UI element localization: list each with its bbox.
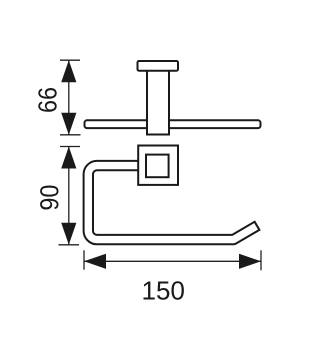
dim 150: dimension line (84, 260, 261, 262)
dim 66: top extension tick (60, 59, 80, 61)
dim 90: top extension tick (60, 146, 80, 148)
top view: wall cap (138, 61, 179, 71)
dim 90: bottom extension tick (59, 244, 80, 246)
front view: tube inner (white) (88, 166, 256, 240)
dim 150: right arrowhead (239, 254, 261, 269)
front view: tube outline (black) (88, 166, 258, 240)
top view: horizontal bar (85, 120, 261, 128)
dim 150: left extension tick (83, 250, 85, 269)
dim 90: up arrowhead (61, 147, 76, 169)
dim 150: left arrowhead (84, 254, 106, 269)
dim 66: label (38, 88, 56, 112)
dim 66: down arrowhead (61, 113, 76, 135)
front view: wall plate outer square (138, 146, 178, 185)
dim 150: label (144, 281, 184, 299)
front view: wall plate inner square (146, 155, 169, 178)
dim 150: right extension tick (260, 250, 262, 270)
top view: mounting post (147, 70, 169, 135)
dim 66: bottom extension tick (60, 134, 81, 136)
dim 90: label (40, 185, 58, 209)
dim 66: dimension line (68, 60, 70, 135)
dim 66: up arrowhead (61, 60, 76, 82)
dim 90: down arrowhead (61, 223, 76, 245)
dim 90: dimension line (68, 147, 70, 245)
